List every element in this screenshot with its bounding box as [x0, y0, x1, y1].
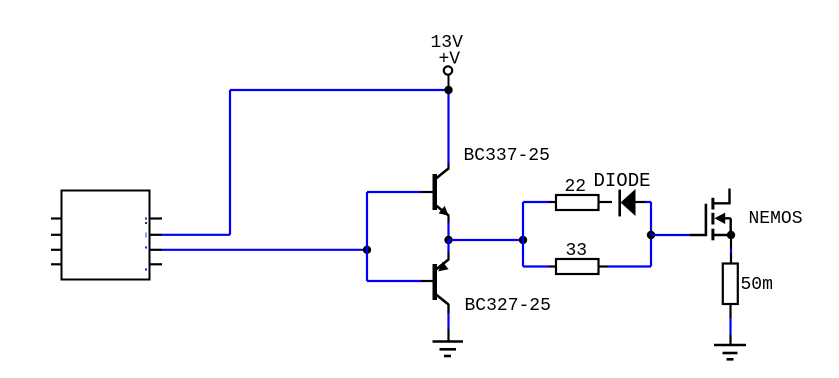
svg-text:DIODE: DIODE — [594, 170, 651, 192]
svg-text:33: 33 — [566, 241, 588, 261]
svg-text:BC327-25: BC327-25 — [465, 296, 551, 316]
junction output node — [444, 236, 452, 244]
diode DIODE — [620, 189, 646, 216]
wire to Q2 base — [367, 280, 422, 282]
junction source node — [727, 231, 735, 239]
junction base node — [363, 246, 371, 254]
transistor Q1 BC337-25 (NPN) — [421, 164, 449, 224]
wire source blue segment — [730, 249, 732, 254]
svg-text:BC337-25: BC337-25 — [464, 146, 550, 166]
wire base riser vertical — [366, 192, 368, 281]
IC box U1 — [51, 191, 162, 280]
wire output node to Q2 emitter — [447, 240, 449, 253]
wire gate node to mosfet — [651, 234, 690, 236]
junction gate node — [647, 231, 655, 239]
transistor Q2 BC327-25 (PNP) — [421, 252, 449, 314]
wire to R 22 — [523, 201, 550, 203]
wire 50m to ground — [729, 318, 731, 335]
svg-text:NEMOS: NEMOS — [749, 209, 803, 229]
svg-text:+V: +V — [439, 50, 461, 70]
wire source down — [730, 235, 732, 249]
wire to R 33 — [523, 265, 550, 267]
wire IC pin2 to left riser — [162, 234, 230, 236]
wire to Q1 base — [367, 191, 422, 193]
junction resistor-split node — [519, 236, 527, 244]
supply +V symbol — [444, 66, 452, 90]
wire Q2 collector down — [447, 305, 449, 314]
resistor 50m — [723, 264, 738, 319]
wire top rail to supply node — [230, 89, 449, 91]
svg-text:50m: 50m — [741, 275, 773, 295]
wire Q1 emitter to output node — [447, 223, 449, 241]
wire supply node down to Q1 collector — [447, 90, 449, 164]
ground under Q2 — [433, 329, 464, 356]
ground under 50m — [714, 335, 746, 360]
svg-text:22: 22 — [565, 177, 587, 197]
wire to resistor 50m — [730, 253, 732, 264]
junction supply node — [444, 86, 452, 94]
wire diode to right riser — [645, 201, 651, 203]
wire collector blue segment — [447, 313, 449, 330]
wire left riser up — [229, 90, 231, 235]
wire IC pin3 to base node — [162, 249, 367, 251]
wire output rail — [449, 239, 524, 241]
wire right riser — [650, 202, 652, 267]
wire R33 to right riser — [608, 265, 652, 267]
resistor 33 — [549, 259, 608, 274]
wire split riser — [522, 202, 524, 267]
mosfet NEMOS — [690, 189, 731, 241]
resistor 22 — [549, 195, 612, 210]
